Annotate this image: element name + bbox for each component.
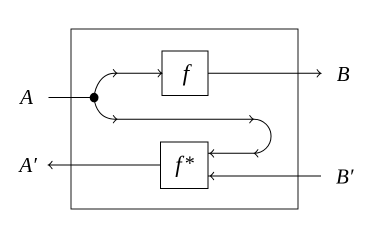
svg-text:*: *: [184, 153, 194, 175]
svg-text:A: A: [18, 85, 33, 109]
svg-text:B: B: [337, 62, 350, 86]
svg-text:A′: A′: [17, 153, 37, 177]
svg-text:B′: B′: [336, 164, 354, 188]
